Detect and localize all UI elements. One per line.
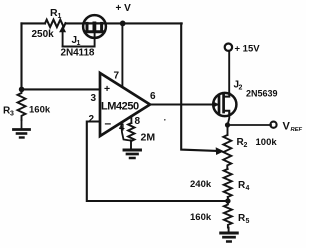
transistor J1 (2N4118 JFET) [83,15,106,38]
resistor R3 [18,89,26,120]
svg-text:LM4250: LM4250 [101,101,139,113]
svg-text:250k: 250k [32,29,55,40]
resistor R1 [45,20,66,27]
wire rail J1 to corner [105,22,182,24]
wire noninverting input (pin 3) [22,88,101,90]
svg-text:2N5639: 2N5639 [246,89,278,99]
ground below R5 [221,228,238,242]
pin number 8 [135,116,141,127]
terminal +15V circle [225,44,232,51]
svg-text:2: 2 [239,85,243,92]
value 160k (R5) [190,212,212,223]
pin number 7 [114,71,120,82]
label R3 [3,106,14,118]
opamp + sign [104,83,110,95]
svg-text:V: V [283,121,291,133]
wire +V drop to R2 wiper [181,23,216,150]
wire R1 wiper to J1 gate [63,38,95,47]
wire rail R1 to J1 [66,22,84,24]
node VREF junction dot [225,122,230,127]
scan speck [164,119,166,121]
value 100k [256,137,278,148]
node feedback junction dot [225,198,230,203]
value 2M [141,132,156,144]
wire pin7 drop [121,23,123,87]
trimmer wiper arrow R1 [59,26,66,47]
resistor 2M (set resistor) [128,123,134,141]
svg-text:3: 3 [10,111,14,118]
svg-text:7: 7 [114,71,120,82]
svg-text:+ V: + V [116,3,132,14]
node R3 junction dot [19,87,25,93]
pin number 2 [89,114,95,125]
wire left rail down [20,23,22,89]
svg-text:240k: 240k [190,179,212,190]
node +V junction dot [120,21,126,27]
pin number 4 [119,123,125,134]
label VREF [283,121,303,134]
svg-text:2: 2 [89,114,95,125]
svg-text:2: 2 [244,142,248,149]
label R4 [238,180,250,192]
svg-text:6: 6 [150,91,156,102]
svg-text:8: 8 [135,116,141,127]
svg-text:2N4118: 2N4118 [61,48,95,59]
label R2 [237,137,248,149]
wire junction to R2 [227,125,229,135]
svg-text:3: 3 [91,93,97,104]
wire to VREF terminal [228,124,272,126]
label R5 [238,213,250,225]
label LM4250 [101,101,139,113]
svg-text:2M: 2M [141,132,156,144]
wire output pin 6 to J2 gate [150,103,215,105]
pin 8 stub [130,116,132,123]
value 240k [190,179,212,190]
wire inverting input (pin 2) feedback [87,122,228,202]
label 2N5639 [246,89,278,99]
svg-text:160k: 160k [190,212,212,223]
value 160k (R3) [29,105,51,116]
svg-text:4: 4 [119,123,125,134]
wire J2 source down [228,113,230,125]
wiper arrowhead R2 [216,147,224,155]
transistor J2 (2N5639 JFET) [213,93,236,116]
resistor R5 [224,201,232,228]
label J1 [72,35,81,47]
svg-text:1: 1 [58,13,62,20]
svg-text:5: 5 [246,218,250,225]
resistor R4 [224,169,232,197]
svg-text:+ 15V: + 15V [235,44,261,55]
svg-text:4: 4 [246,185,250,192]
wire R4 to node [227,197,229,201]
op-amp U1 LM4250 triangle [100,73,150,136]
value 250k [32,29,55,40]
label R1 [50,7,62,20]
pin number 3 [91,93,97,104]
pin number 6 [150,91,156,102]
svg-text:160k: 160k [29,105,51,116]
svg-text:REF: REF [291,127,303,133]
svg-text:100k: 100k [256,137,278,148]
pin 4 stub [121,123,131,141]
ground below R3 [14,120,30,138]
opamp - sign [105,116,112,130]
ground below 2M [124,141,141,159]
label +15V [235,44,261,55]
terminal VREF circle [270,122,276,128]
wire top rail left segment [22,22,46,24]
label +V [116,3,132,14]
label 2N4118 [61,48,95,59]
svg-text:–: – [105,116,112,130]
svg-text:+: + [104,83,110,95]
potentiometer R2 [223,135,231,169]
svg-text:1: 1 [77,40,81,47]
label J2 [234,80,243,92]
wire +15V to J2 drain [228,51,230,94]
